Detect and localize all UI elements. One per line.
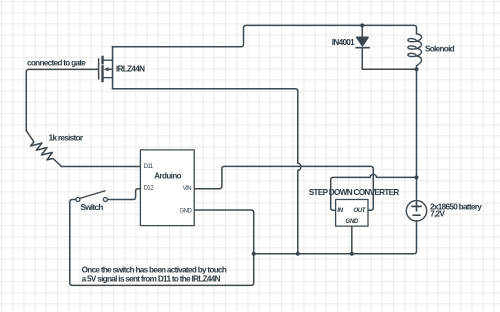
battery BT1	[406, 201, 426, 221]
wire: switch left terminal to ground rail	[70, 200, 254, 286]
svg-text:connected to gate: connected to gate	[27, 58, 86, 67]
arrow of MOSFET middle stub	[104, 67, 109, 71]
svg-text:Arduino: Arduino	[154, 171, 181, 180]
wire: switch right terminal to Arduino D12	[107, 189, 140, 200]
wire: resistor to Arduino D11	[62, 166, 141, 168]
wire: converter GND to ground rail	[351, 226, 353, 254]
svg-text:1k resistor: 1k resistor	[49, 133, 84, 142]
svg-text:VIN: VIN	[183, 186, 192, 192]
svg-text:IRLZ44N: IRLZ44N	[116, 65, 145, 74]
switch S1	[76, 191, 108, 202]
junction: ground rail at Arduino GND	[252, 252, 256, 256]
transistor Q1 IRLZ44N	[99, 47, 113, 89]
step down converter U2 box	[336, 200, 368, 227]
svg-text:IN4001: IN4001	[332, 38, 355, 47]
svg-text:GND: GND	[345, 218, 358, 225]
inductor L1 solenoid coil	[408, 34, 422, 69]
svg-text:Solenoid: Solenoid	[425, 45, 455, 54]
wire: drain to top rail and solenoid top	[113, 25, 417, 46]
svg-text:a 5V signal is sent from D11 t: a 5V signal is sent from D11 to the IRLZ…	[82, 274, 221, 283]
Arduino U1 box	[140, 150, 194, 226]
diode D1 IN4001	[356, 25, 369, 69]
wire: MOSFET source to ground rail (with hop)	[113, 89, 301, 254]
wire: diode bottom to solenoid bottom	[362, 68, 416, 70]
svg-text:Once the switch has been activ: Once the switch has been activated by to…	[82, 265, 227, 274]
svg-text:Switch: Switch	[81, 203, 104, 212]
wire: Arduino VIN to converter OUT	[194, 166, 373, 210]
wire: converter IN to battery node (with hop)	[331, 174, 417, 210]
wire: Arduino GND to ground rail	[194, 210, 254, 254]
junction: ground rail at converter GND	[350, 252, 354, 256]
svg-text:IN: IN	[337, 207, 343, 214]
wire: right rail solenoid bottom to battery top	[416, 69, 418, 200]
svg-text:OUT: OUT	[353, 207, 366, 214]
junction: battery positive / converter IN node	[415, 175, 419, 179]
wire: battery negative to bottom ground rail	[254, 221, 417, 254]
junction: diode top node	[360, 23, 364, 27]
svg-text:D11: D11	[144, 164, 154, 170]
svg-text:STEP DOWN CONVERTER: STEP DOWN CONVERTER	[309, 188, 400, 197]
junction: solenoid bottom node	[415, 67, 419, 71]
svg-text:7,2V: 7,2V	[430, 209, 445, 218]
junction: ground rail at MOSFET source	[296, 252, 300, 256]
wire: gate wire from left label down to resistor	[26, 69, 98, 131]
svg-text:GND: GND	[179, 209, 192, 215]
svg-text:D12: D12	[144, 185, 155, 191]
resistor R1 1k (zigzag)	[26, 131, 61, 167]
